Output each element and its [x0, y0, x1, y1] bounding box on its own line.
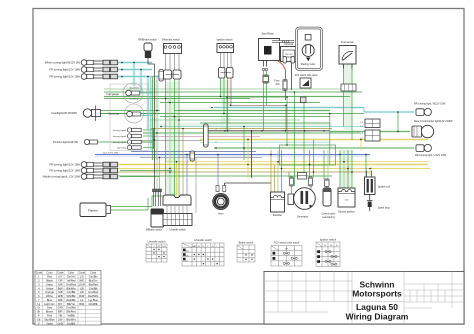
svg-text:UP: UP [157, 246, 161, 248]
svg-text:W/G: W/G [79, 278, 84, 282]
svg-text:G/R: G/R [58, 282, 63, 286]
svg-text:FR turning light/12V 10W: FR turning light/12V 10W [49, 68, 80, 72]
svg-text:Blk/Yel: Blk/Yel [67, 302, 75, 306]
svg-text:Wht/Blk: Wht/Blk [67, 294, 77, 298]
svg-text:White turning light/W12V 3W: White turning light/W12V 3W [45, 61, 81, 65]
svg-text:ACII switch,side stand: ACII switch,side stand [274, 241, 300, 245]
svg-text:L/handle switch: L/handle switch [194, 238, 212, 242]
svg-text:Middle turning light/L 12V 10W: Middle turning light/L 12V 10W [43, 175, 81, 179]
svg-text:Start Relay: Start Relay [261, 33, 274, 36]
svg-text:L/B: L/B [80, 286, 84, 290]
svg-text:Red/Wht: Red/Wht [88, 294, 98, 298]
svg-text:Speed/Odo: Speed/Odo [129, 88, 139, 90]
svg-text:Code: Code [79, 271, 86, 275]
svg-text:Red/Blk: Red/Blk [66, 298, 76, 302]
svg-text:Code: Code [36, 271, 43, 275]
svg-text:Blu/Grn: Blu/Grn [89, 278, 98, 282]
svg-text:12V CDI: 12V CDI [285, 54, 293, 56]
svg-text:Orange: Orange [45, 290, 54, 294]
svg-text:Gr/B: Gr/B [58, 321, 64, 325]
svg-text:2 1: 2 1 [360, 138, 363, 140]
svg-text:L/handle switch: L/handle switch [169, 229, 186, 232]
svg-text:Headlight/HIP 36/36W: Headlight/HIP 36/36W [51, 111, 77, 115]
svg-text:G/Y: G/Y [58, 275, 63, 279]
svg-text:Sky Blue: Sky Blue [44, 317, 55, 321]
svg-text:Red: Red [47, 275, 52, 279]
svg-text:Fuel gauge: Fuel gauge [106, 93, 119, 96]
svg-text:R/handle switch: R/handle switch [162, 39, 180, 42]
svg-text:R/W: R/W [79, 294, 85, 298]
svg-text:Black: Black [46, 278, 53, 282]
svg-text:Horn: Horn [218, 213, 224, 216]
svg-text:R/B: R/B [58, 298, 63, 302]
svg-text:Color: Color [90, 271, 96, 275]
svg-text:OFF: OFF [185, 251, 190, 253]
svg-text:IG: IG [330, 245, 333, 247]
svg-text:Grn/Blk: Grn/Blk [67, 290, 76, 294]
svg-text:FR turning light/12V 10W: FR turning light/12V 10W [49, 75, 80, 79]
svg-text:B/W: B/W [79, 302, 84, 306]
svg-text:Rear Combination light/12V 21/: Rear Combination light/12V 21/5W [414, 120, 453, 123]
svg-text:G/W: G/W [58, 306, 64, 310]
svg-text:G/B: G/B [58, 290, 63, 294]
svg-text:Lgt Blue: Lgt Blue [88, 298, 98, 302]
svg-text:LG/R: LG/R [79, 282, 85, 286]
svg-text:RR turning light, L/12V 10W: RR turning light, L/12V 10W [415, 154, 447, 157]
svg-text:Grn/Blk: Grn/Blk [89, 286, 98, 290]
svg-text:Blk/Red: Blk/Red [66, 310, 76, 314]
svg-text:SCII switch,side stand: SCII switch,side stand [295, 74, 318, 77]
svg-text:Control valve,: Control valve, [321, 213, 335, 216]
svg-text:Blk/Wht: Blk/Wht [67, 286, 76, 290]
svg-text:W/B: W/B [58, 294, 63, 298]
svg-text:L/W: L/W [58, 317, 63, 321]
svg-text:seal starting: seal starting [322, 216, 335, 219]
svg-text:B/W: B/W [58, 286, 63, 290]
svg-text:White: White [46, 294, 53, 298]
svg-text:Ignition coil: Ignition coil [378, 186, 390, 189]
svg-text:Gr: Gr [37, 306, 40, 310]
svg-text:10A: 10A [275, 83, 280, 86]
svg-text:4 3: 4 3 [360, 133, 363, 135]
svg-text:Code: Code [57, 271, 64, 275]
svg-text:DN: DN [162, 246, 166, 248]
svg-text:Laguna 50: Laguna 50 [356, 302, 398, 312]
svg-text:Light Grn: Light Grn [44, 302, 55, 306]
svg-text:Dail lamp: Dail lamp [117, 148, 127, 150]
svg-text:Generator: Generator [297, 216, 308, 219]
svg-text:RR turning light, W12V 10W: RR turning light, W12V 10W [414, 103, 446, 106]
svg-text:Grn/Red: Grn/Red [88, 290, 98, 294]
svg-text:Pink: Pink [47, 314, 53, 318]
svg-text:2 1: 2 1 [360, 126, 363, 128]
svg-text:Ignition switch: Ignition switch [320, 238, 337, 242]
svg-text:Brake switch: Brake switch [239, 241, 254, 245]
svg-text:FR turning light/12V 10W: FR turning light/12V 10W [49, 163, 80, 167]
svg-text:L/handle switch: L/handle switch [148, 240, 166, 244]
svg-text:P: P [38, 314, 40, 318]
svg-text:Color: Color [68, 271, 74, 275]
svg-text:Flasher: Flasher [88, 209, 98, 213]
svg-text:Br: Br [38, 310, 41, 314]
svg-text:Starting motor: Starting motor [301, 63, 316, 66]
svg-text:Wiring Diagram: Wiring Diagram [346, 312, 409, 322]
svg-text:L/R: L/R [80, 290, 84, 294]
svg-text:Grn/Red: Grn/Red [66, 282, 76, 286]
svg-text:B/Y: B/Y [58, 302, 62, 306]
svg-text:Fuel/Temp: Fuel/Temp [130, 99, 139, 101]
svg-text:Gry/Blk: Gry/Blk [67, 321, 76, 325]
svg-text:V: V [38, 321, 40, 325]
svg-text:Red/Blk: Red/Blk [89, 302, 99, 306]
svg-text:Rectifier: Rectifier [273, 214, 282, 217]
svg-text:turning signal: turning signal [113, 129, 127, 132]
svg-text:Position light/G18 4W: Position light/G18 4W [53, 140, 78, 144]
svg-text:FR turning light/12V 10W: FR turning light/12V 10W [49, 169, 80, 173]
svg-text:(2+6 12V1.7W): (2+6 12V1.7W) [103, 152, 118, 154]
svg-text:L/G: L/G [80, 275, 84, 279]
svg-text:4 3: 4 3 [360, 122, 363, 124]
svg-text:UP: UP [285, 249, 289, 251]
svg-text:Grn/Yel: Grn/Yel [67, 275, 76, 279]
svg-text:Ignition switch: Ignition switch [217, 39, 233, 42]
svg-text:Y/B: Y/B [58, 314, 62, 318]
svg-text:Yel/Blk: Yel/Blk [67, 314, 76, 318]
svg-text:Color: Color [46, 271, 52, 275]
svg-text:ON: ON [185, 256, 189, 258]
svg-text:M/Brake switch: M/Brake switch [146, 229, 163, 232]
svg-text:B/R: B/R [58, 310, 62, 314]
svg-text:Grn/Blu: Grn/Blu [89, 275, 98, 279]
svg-text:RR/Brake switch: RR/Brake switch [138, 39, 157, 42]
svg-text:Electric Ignition: Electric Ignition [338, 211, 355, 214]
svg-text:Brown: Brown [46, 310, 54, 314]
svg-text:Grey: Grey [47, 306, 53, 310]
svg-text:Yellow: Yellow [46, 286, 54, 290]
svg-text:turning signal: turning signal [113, 141, 127, 144]
svg-text:CDI: CDI [345, 200, 349, 202]
svg-text:Fuel sensor: Fuel sensor [341, 41, 354, 44]
svg-text:Speed ga: Speed ga [108, 113, 119, 116]
svg-text:Blue: Blue [47, 298, 53, 302]
svg-text:Yel/Red: Yel/Red [67, 278, 77, 282]
svg-text:5: 5 [371, 168, 372, 170]
svg-text:Fuse: Fuse [274, 81, 280, 83]
svg-text:Grn/Wht: Grn/Wht [66, 306, 76, 310]
svg-text:Y/R: Y/R [58, 278, 62, 282]
svg-text:Sb: Sb [37, 317, 41, 321]
svg-text:Motorsports: Motorsports [352, 289, 402, 299]
svg-text:Violet: Violet [46, 321, 53, 325]
svg-text:Spark plug: Spark plug [378, 207, 390, 210]
svg-text:Green: Green [46, 282, 54, 286]
svg-text:Blu/Wht: Blu/Wht [66, 317, 75, 321]
svg-text:Optional: Optional [284, 43, 293, 46]
svg-text:Blu/Red: Blu/Red [89, 282, 99, 286]
svg-text:turning signal: turning signal [113, 135, 127, 138]
